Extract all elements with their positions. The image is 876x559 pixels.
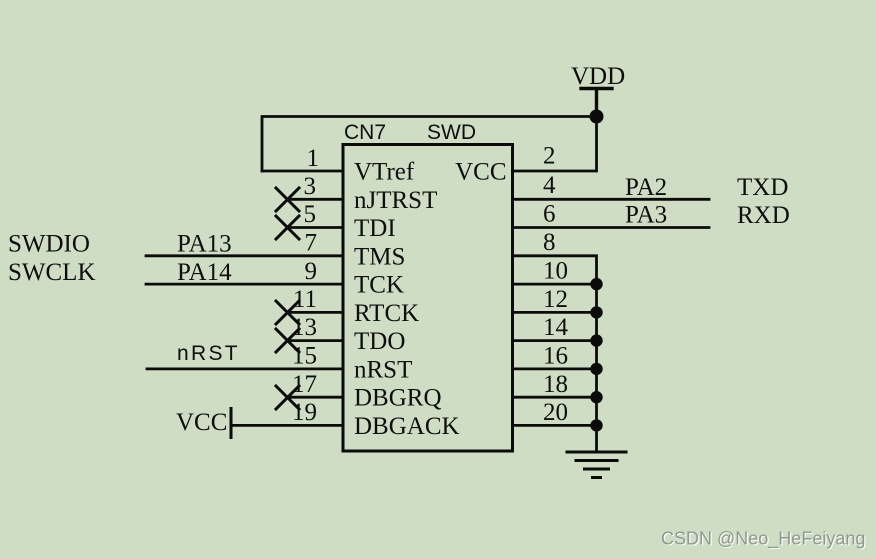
- junction dot pin 20: [590, 419, 602, 431]
- wire pin 4 net PA2/TXD: [513, 198, 710, 201]
- svg-text:VCC: VCC: [176, 409, 227, 436]
- svg-text:PA3: PA3: [625, 202, 667, 229]
- wire pin 20 stub: [513, 424, 597, 427]
- wire pin 14 stub: [513, 339, 597, 342]
- svg-text:16: 16: [543, 343, 568, 370]
- wire pin 19 net VCC: [231, 424, 343, 427]
- svg-text:VCC: VCC: [455, 159, 506, 186]
- wire pin 5 stub: [288, 226, 344, 229]
- watermark CSDN @Neo_HeFeiyang: [661, 529, 867, 551]
- svg-text:PA2: PA2: [625, 174, 667, 201]
- wire pin 6 net PA3/RXD: [513, 226, 710, 229]
- svg-text:nJTRST: nJTRST: [354, 187, 437, 214]
- junction dot pin 14: [590, 334, 602, 346]
- wire pin 1 stub: [262, 170, 343, 173]
- svg-text:3: 3: [304, 173, 317, 200]
- junction dot VDD node: [590, 110, 604, 124]
- wire pin 15 net nRST: [147, 367, 343, 370]
- svg-text:RXD: RXD: [737, 202, 790, 229]
- svg-text:6: 6: [543, 201, 556, 228]
- svg-text:5: 5: [304, 201, 317, 228]
- connector CN7 outline: [343, 145, 513, 452]
- wire pin 13 stub: [288, 339, 344, 342]
- svg-text:TDI: TDI: [354, 215, 396, 242]
- svg-text:DBGACK: DBGACK: [354, 413, 460, 440]
- wire pin 18 stub: [513, 396, 597, 399]
- junction dot pin 12: [590, 306, 602, 318]
- svg-text:2: 2: [543, 143, 556, 170]
- svg-text:19: 19: [292, 399, 317, 426]
- svg-text:CN7: CN7: [344, 121, 386, 144]
- wire top net: pin1 to VDD junction: [262, 117, 597, 172]
- svg-text:9: 9: [305, 258, 318, 285]
- no-connect X pin 3: [276, 188, 299, 211]
- wire pin 7 net PA13/SWDIO: [146, 254, 343, 257]
- svg-text:7: 7: [305, 230, 318, 257]
- svg-text:VTref: VTref: [354, 159, 415, 186]
- svg-text:SWDIO: SWDIO: [8, 231, 90, 258]
- svg-text:TDO: TDO: [354, 328, 405, 355]
- no-connect X pin 13: [276, 329, 299, 352]
- svg-text:4: 4: [543, 172, 556, 199]
- wire pin 2 to VDD junction: [513, 117, 597, 172]
- ground symbol: [567, 452, 626, 478]
- svg-text:TXD: TXD: [737, 174, 788, 201]
- svg-text:nRST: nRST: [177, 342, 240, 365]
- wire pin 3 stub: [288, 198, 344, 201]
- svg-text:20: 20: [543, 399, 568, 426]
- wire pin 8 to ground bus: [513, 256, 597, 284]
- svg-text:15: 15: [292, 343, 317, 370]
- power VDD bar and lead: [581, 89, 612, 117]
- wire pin 10 stub: [513, 283, 597, 286]
- junction dot pin 16: [590, 363, 602, 375]
- svg-text:11: 11: [293, 286, 317, 313]
- wire pin 9 net PA14/SWCLK: [146, 283, 343, 286]
- svg-text:VDD: VDD: [571, 63, 625, 90]
- svg-text:TCK: TCK: [354, 272, 404, 299]
- svg-text:DBGRQ: DBGRQ: [354, 385, 442, 412]
- svg-text:8: 8: [543, 229, 556, 256]
- VCC tick mark: [230, 409, 233, 438]
- svg-text:PA14: PA14: [177, 259, 232, 286]
- svg-text:PA13: PA13: [177, 231, 232, 258]
- junction dot pin 10: [590, 278, 602, 290]
- no-connect X pin 11: [276, 301, 299, 324]
- svg-text:CSDN @Neo_HeFeiyang: CSDN @Neo_HeFeiyang: [661, 529, 865, 550]
- svg-text:17: 17: [292, 371, 317, 398]
- svg-text:18: 18: [543, 371, 568, 398]
- wire pin 12 stub: [513, 311, 597, 314]
- wire pin 11 stub: [288, 311, 344, 314]
- svg-text:12: 12: [543, 286, 568, 313]
- svg-text:nRST: nRST: [354, 356, 412, 383]
- wire ground bus vertical: [595, 284, 598, 451]
- svg-text:13: 13: [292, 314, 317, 341]
- junction dot pin 18: [590, 391, 602, 403]
- no-connect X pin 17: [276, 386, 299, 409]
- wire pin 16 stub: [513, 367, 597, 370]
- svg-text:SWD: SWD: [427, 121, 476, 144]
- svg-text:RTCK: RTCK: [354, 300, 419, 327]
- svg-text:SWCLK: SWCLK: [8, 259, 96, 286]
- svg-text:14: 14: [543, 314, 569, 341]
- svg-text:1: 1: [307, 145, 320, 172]
- no-connect X pin 5: [276, 216, 299, 239]
- svg-text:10: 10: [543, 258, 568, 285]
- svg-text:TMS: TMS: [354, 243, 405, 270]
- wire pin 17 stub: [288, 396, 344, 399]
